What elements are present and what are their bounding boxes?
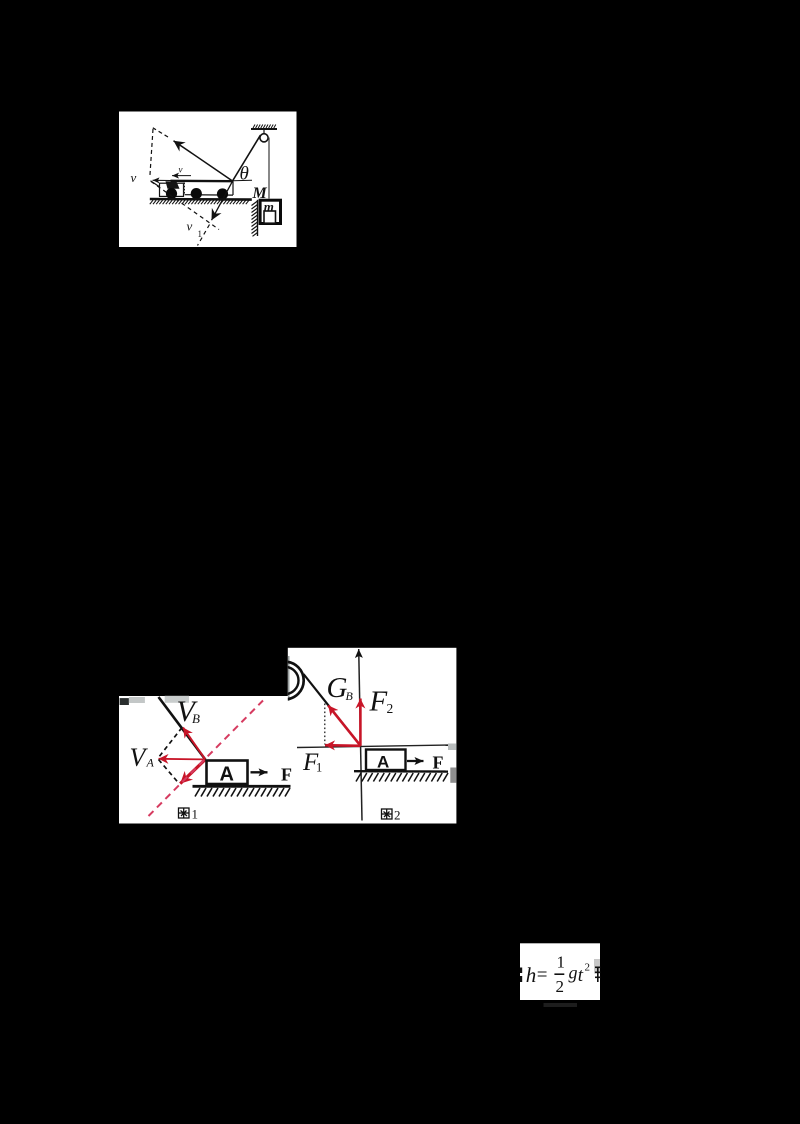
tu1: ground hatching <box>195 788 290 797</box>
svg-text:t: t <box>578 965 584 986</box>
tu2: red arrow F2 up <box>359 699 362 746</box>
svg-text:A: A <box>377 753 389 772</box>
formula fraction bar <box>554 973 564 975</box>
formula left edge mark lower <box>520 976 522 982</box>
tu1: red thick arrow down-left <box>180 759 205 783</box>
truck grille marks <box>183 183 185 194</box>
svg-text:θ: θ <box>240 164 249 185</box>
svg-text:2: 2 <box>585 962 591 974</box>
svg-text:A: A <box>146 756 155 770</box>
tu1: red dashed diagonal <box>149 701 264 817</box>
svg-text:G: G <box>327 672 348 704</box>
svg-text:1: 1 <box>198 229 203 239</box>
figure 2 left panel (tu1) white box <box>119 696 288 824</box>
svg-text:v: v <box>187 219 193 234</box>
pulley <box>260 134 268 142</box>
v1 component line with arrow <box>212 181 233 220</box>
tu1: block A <box>207 761 248 785</box>
wall edge line <box>257 200 259 236</box>
dashed extension of rope arrow <box>153 128 168 137</box>
ground line <box>150 198 252 201</box>
svg-text:2: 2 <box>387 701 394 716</box>
svg-text:1: 1 <box>192 807 199 822</box>
svg-text:B: B <box>346 689 354 703</box>
tu2: ground hatching <box>356 773 448 782</box>
truck cab body <box>160 183 184 196</box>
ground hatching <box>150 200 249 204</box>
tu2: dotted vertical construction line <box>324 704 326 745</box>
formula right black glyph artifact <box>595 967 601 983</box>
formula left edge mark upper <box>520 968 522 974</box>
svg-text:B: B <box>192 711 200 726</box>
vertical rope to mass M <box>268 138 270 199</box>
tu2: red diagonal arrow along rope <box>328 705 360 745</box>
mass M box <box>260 200 280 223</box>
tu1: dashed parallelogram side lower <box>159 760 180 784</box>
rope from boom tip to pulley <box>233 135 261 181</box>
figure 1 white panel (crane diagram) <box>119 112 297 248</box>
wheel 3 <box>217 188 228 199</box>
tu2: gray edge line behind pulley <box>288 656 290 701</box>
main rope-direction arrow (up-left) <box>174 141 233 181</box>
angle base line <box>233 179 252 182</box>
svg-text:v: v <box>179 165 183 175</box>
svg-text:h: h <box>526 963 537 987</box>
dashed parallelogram diagonal <box>151 182 219 230</box>
tu1: red arrow vA <box>159 758 206 761</box>
velocity v arrow (points left) <box>153 179 171 181</box>
tu1: caption glyph tu <box>179 808 190 818</box>
tu1: red arrow vB <box>183 728 205 760</box>
tu2: vertical axis with up arrow <box>359 649 362 821</box>
tu1: rod <box>159 697 206 760</box>
wall hatching <box>252 201 258 236</box>
tu2: red arrow F1 left <box>325 744 360 747</box>
mass inner window <box>264 211 276 223</box>
tu2: ground line <box>354 770 448 773</box>
ceiling mount hatching <box>253 125 276 129</box>
tu2: horizontal axis <box>297 745 451 748</box>
formula right gray square artifact <box>594 959 600 974</box>
ceiling mount bar <box>251 128 277 130</box>
tu2: block A <box>366 750 406 771</box>
svg-text:v: v <box>131 170 137 185</box>
svg-text:2: 2 <box>556 977 565 996</box>
svg-text:2: 2 <box>394 808 401 823</box>
svg-text:1: 1 <box>557 953 566 972</box>
formula white panel <box>520 943 600 1000</box>
wheel 1 <box>166 188 177 199</box>
svg-text:F: F <box>369 686 388 718</box>
svg-text:=: = <box>537 965 548 986</box>
wheel 2 <box>191 188 202 199</box>
tu2: gray patch right edge lower <box>450 768 456 783</box>
truck bed bottom <box>185 194 233 196</box>
svg-text:A: A <box>220 764 234 786</box>
tu2: F arrow <box>407 760 424 762</box>
tu1: F arrow <box>251 771 268 773</box>
tu2: rope from pulley to origin <box>304 674 361 746</box>
svg-text:1: 1 <box>316 761 322 775</box>
tu2: gray patch right edge upper <box>448 744 456 751</box>
truck cab window (dark) <box>166 181 180 189</box>
tu2: pulley outer arc <box>266 662 304 700</box>
gray smudge artifact a <box>129 697 145 703</box>
dark corner square artifact <box>120 698 129 705</box>
truck bed right edge <box>232 181 234 195</box>
svg-text:g: g <box>569 963 578 983</box>
gray smudge artifact b <box>165 696 189 703</box>
truck hood slant <box>151 181 163 189</box>
svg-text:F: F <box>281 765 292 785</box>
tu1: dashed parallelogram side upper <box>159 728 183 758</box>
truck bed top (boom line) <box>171 180 234 183</box>
faint gray bar below formula <box>544 1003 578 1007</box>
small v arrow above truck <box>172 175 191 177</box>
tu1: ground line <box>193 785 291 788</box>
v1 dashed continuation <box>198 225 210 246</box>
dashed left side of parallelogram <box>150 129 153 178</box>
pulley hanger stub <box>263 130 265 135</box>
svg-text:F: F <box>433 753 444 773</box>
figure 3 right panel (tu2) white box <box>288 648 457 824</box>
tu2: caption glyph tu <box>382 809 393 819</box>
